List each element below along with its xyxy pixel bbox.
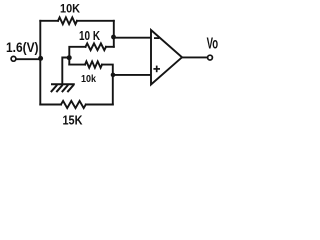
- wire R3 right lead down to plus node: [102, 65, 113, 75]
- node dot input junction: [38, 56, 43, 61]
- terminal input circle: [11, 56, 16, 61]
- svg-text:10K: 10K: [60, 2, 80, 16]
- resistor R2 10K: [86, 43, 107, 50]
- wire R3 left lead: [69, 64, 85, 66]
- wire bottom left segment: [40, 104, 61, 106]
- node dot inverting junction: [111, 35, 116, 40]
- wire left vertical: [39, 21, 41, 105]
- wire top right segment: [77, 20, 114, 22]
- svg-text:10 K: 10 K: [79, 29, 100, 43]
- node dot non-inverting junction: [111, 73, 116, 78]
- svg-text:Vo: Vo: [207, 36, 219, 53]
- wire right lower vertical: [112, 75, 114, 105]
- wire output: [182, 56, 207, 58]
- wire right vertical to R2: [113, 21, 115, 47]
- svg-text:15K: 15K: [63, 113, 83, 127]
- resistor R1 10K: [58, 17, 77, 24]
- resistor R4 15K: [61, 101, 86, 108]
- wire bottom right segment: [86, 104, 113, 106]
- wire input lead: [17, 58, 41, 60]
- svg-text:10k: 10k: [81, 73, 96, 85]
- terminal output circle: [208, 55, 213, 60]
- resistor R3 10k: [85, 61, 102, 67]
- wire top left segment: [40, 20, 58, 22]
- node dot middle ground junction: [67, 55, 72, 60]
- wire ground jog: [62, 58, 69, 85]
- wire non-inverting input: [113, 74, 151, 76]
- op-amp plus sign: [153, 66, 160, 73]
- wire R2 left lead and branch vertical: [69, 47, 85, 65]
- wire R2 right lead: [106, 46, 114, 48]
- ground: [52, 84, 74, 91]
- wire inverting input: [114, 37, 151, 39]
- svg-text:1.6(V): 1.6(V): [6, 39, 39, 55]
- op-amp U1: [151, 30, 182, 85]
- op-amp minus sign: [154, 37, 159, 39]
